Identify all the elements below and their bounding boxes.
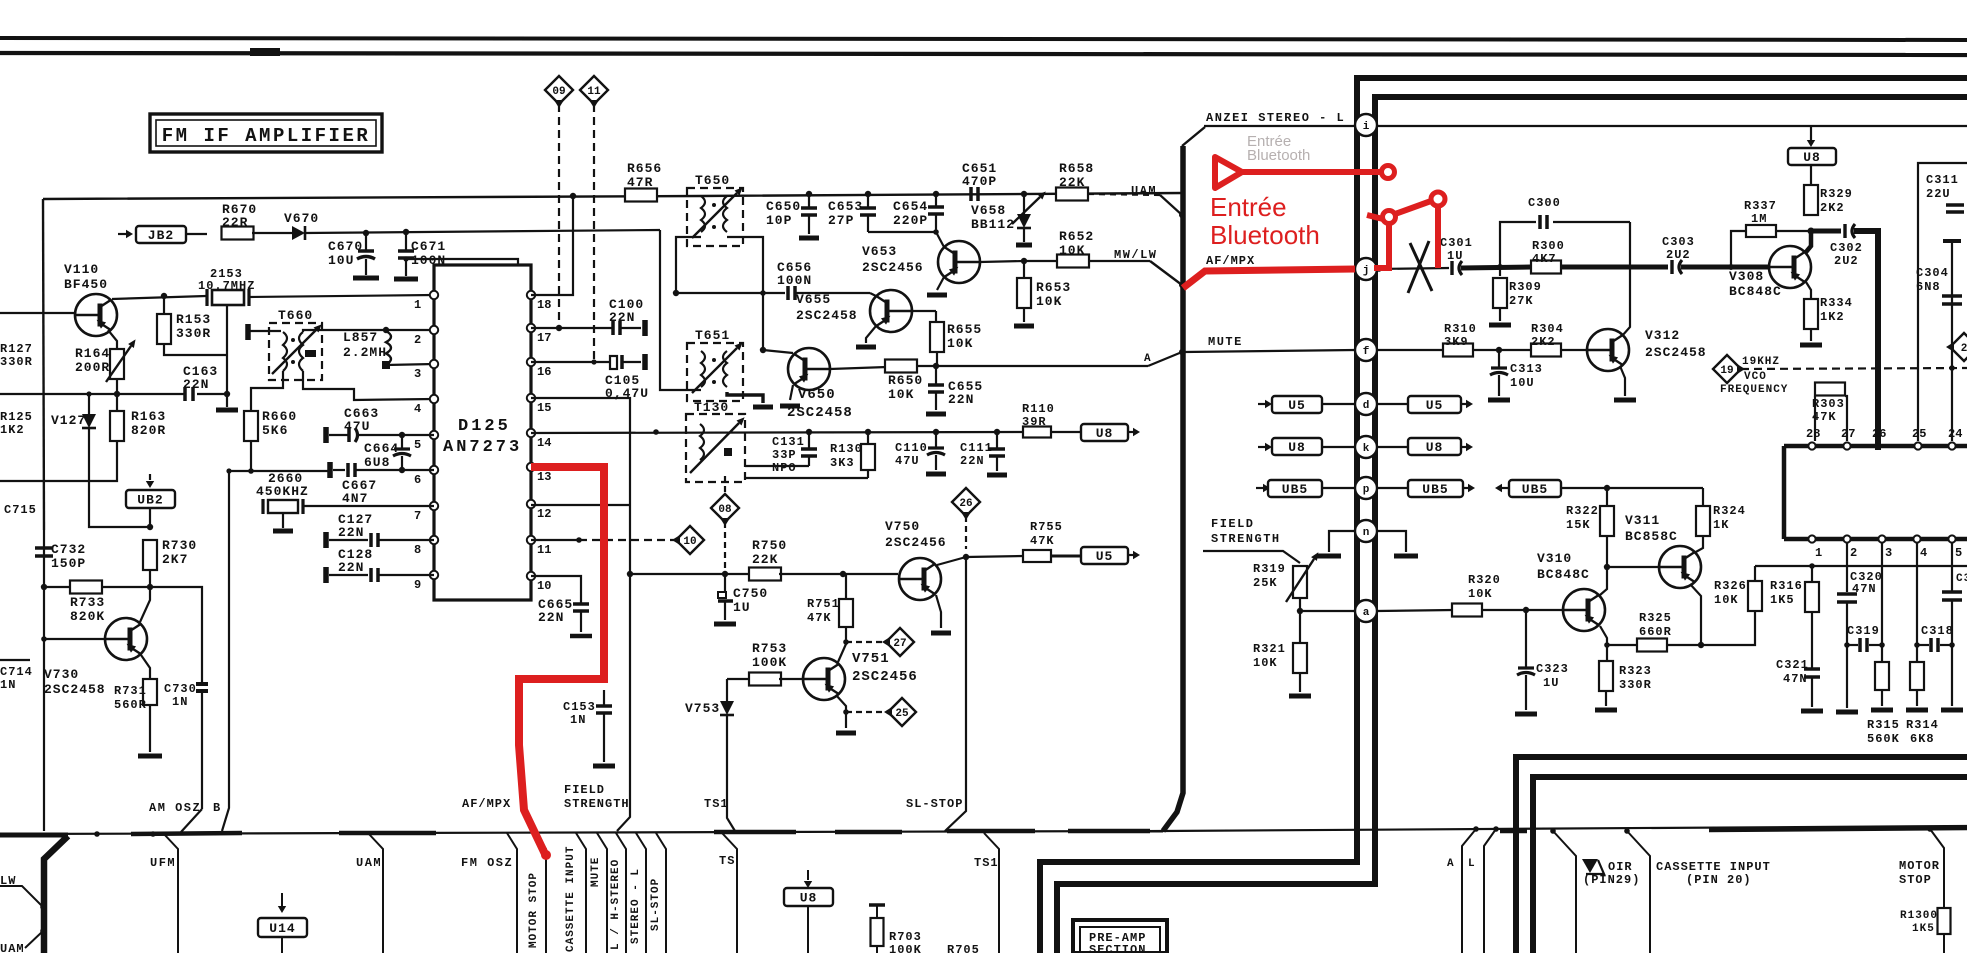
svg-text:T130: T130 bbox=[694, 400, 729, 415]
capacitor C127 22N (pin8) bbox=[323, 532, 329, 548]
svg-text:SL-STOP: SL-STOP bbox=[906, 797, 963, 811]
net diamond 19 bbox=[1713, 355, 1741, 383]
capacitor C670 10U bbox=[365, 233, 367, 251]
svg-text:10K: 10K bbox=[1714, 593, 1739, 607]
svg-text:R130: R130 bbox=[830, 442, 863, 456]
wire boundary heavy overlay right bbox=[1709, 828, 1967, 830]
wire V655 base to R655 top bbox=[912, 310, 936, 312]
capacitor C671 100N bbox=[405, 232, 407, 250]
capacitor C667 4N7 (pin6) bbox=[327, 462, 333, 478]
wire V751 emitter ground bbox=[845, 712, 847, 728]
wire SL-STOP riser down bbox=[945, 557, 966, 831]
wire crystal to IC pin 1 bbox=[249, 295, 434, 297]
svg-text:BB112: BB112 bbox=[971, 217, 1015, 232]
capacitor C110 47U bbox=[935, 432, 937, 447]
wire FM IF block left border bbox=[43, 199, 44, 530]
wire UFM drop line bbox=[163, 833, 178, 953]
svg-text:47U: 47U bbox=[344, 419, 370, 434]
svg-text:1: 1 bbox=[414, 298, 421, 312]
svg-text:NPO: NPO bbox=[772, 461, 797, 475]
svg-text:R652: R652 bbox=[1059, 229, 1094, 244]
wire V653 collector from C653/C654 junction bbox=[936, 232, 944, 247]
svg-text:k: k bbox=[1363, 443, 1370, 455]
wire pin25 riser to C311 rail bbox=[1918, 163, 1967, 441]
svg-text:13: 13 bbox=[537, 470, 551, 484]
wire T651 left top stub bbox=[676, 350, 701, 352]
capacitor C111 22N bbox=[996, 432, 998, 448]
svg-text:820K: 820K bbox=[70, 609, 105, 624]
wire V312 emitter ground bbox=[1620, 366, 1625, 396]
node junction SL-STOP bbox=[963, 554, 969, 560]
svg-text:L / H-STEREO: L / H-STEREO bbox=[610, 859, 622, 950]
node junction R733 left bbox=[41, 584, 47, 590]
svg-text:R303: R303 bbox=[1812, 397, 1845, 411]
annotation red switch upper ring bbox=[1431, 192, 1445, 206]
cut mark X bbox=[1410, 243, 1432, 291]
svg-text:2K2: 2K2 bbox=[1531, 335, 1556, 349]
svg-text:V730: V730 bbox=[44, 667, 79, 682]
svg-text:R733: R733 bbox=[70, 595, 105, 610]
transistor V751 2SC2456 bbox=[803, 658, 845, 700]
wire A drop line bbox=[1462, 829, 1476, 953]
svg-text:C304: C304 bbox=[1916, 266, 1949, 280]
svg-text:R127: R127 bbox=[0, 342, 33, 356]
svg-text:V110: V110 bbox=[64, 262, 99, 277]
svg-text:22K: 22K bbox=[752, 552, 778, 567]
svg-text:U8: U8 bbox=[800, 891, 818, 906]
node junction C670 bbox=[363, 230, 369, 236]
svg-text:UAM: UAM bbox=[0, 942, 25, 953]
svg-text:10K: 10K bbox=[1059, 243, 1085, 258]
svg-text:2U2: 2U2 bbox=[1834, 254, 1859, 268]
svg-text:R316: R316 bbox=[1770, 579, 1803, 593]
diode V127 bbox=[88, 394, 90, 414]
connector circle n bbox=[1355, 520, 1377, 542]
svg-text:47N: 47N bbox=[1852, 582, 1877, 596]
wire UB2 to R730 bbox=[149, 508, 151, 527]
IC D125 pin 6 bbox=[430, 466, 438, 474]
T650 adjust arrow bbox=[692, 193, 737, 238]
transformer T130 (dashed can) bbox=[686, 414, 745, 482]
IC pin 25 (top) bbox=[1914, 442, 1921, 449]
capacitor C750 1U bbox=[724, 574, 726, 592]
net diamond 25 bbox=[888, 698, 916, 726]
wire V655 collector to C656 line bbox=[870, 293, 876, 296]
svg-text:22N: 22N bbox=[960, 454, 985, 468]
wire FM OSZ drop line bbox=[507, 833, 517, 953]
svg-text:27: 27 bbox=[1841, 427, 1855, 441]
capacitor C730 1N bbox=[196, 682, 208, 686]
svg-text:V312: V312 bbox=[1645, 328, 1680, 343]
svg-text:U5: U5 bbox=[1288, 398, 1306, 413]
svg-text:STRENGTH: STRENGTH bbox=[1211, 532, 1281, 546]
svg-text:19: 19 bbox=[1720, 365, 1733, 377]
IC D125 pin 7 bbox=[430, 502, 438, 510]
svg-text:3K3: 3K3 bbox=[830, 456, 855, 470]
svg-text:22N: 22N bbox=[948, 392, 974, 407]
svg-text:Bluetooth: Bluetooth bbox=[1210, 220, 1320, 250]
capacitor C653 27P bbox=[867, 194, 869, 207]
svg-text:UB5: UB5 bbox=[1522, 482, 1548, 497]
node junction C319 left bbox=[1844, 642, 1850, 648]
svg-text:1K2: 1K2 bbox=[1820, 310, 1845, 324]
wire JB2 to R670 bbox=[186, 233, 207, 235]
wire V308 collector node to C302 (heavy) bbox=[1811, 229, 1841, 234]
resistor R755 47K bbox=[1023, 550, 1051, 562]
connector circle a bbox=[1355, 600, 1377, 622]
T650 right winding bbox=[723, 196, 727, 232]
T130 adjust arrow bbox=[690, 423, 739, 473]
svg-text:12: 12 bbox=[537, 507, 551, 521]
crystal 2153 10.7MHZ bbox=[212, 290, 244, 305]
wire C303 to V308 base (heavy) bbox=[1681, 265, 1769, 270]
IC pin 24 (top) bbox=[1948, 442, 1955, 449]
wire C656 line bbox=[676, 292, 785, 294]
resistor R163 820R bbox=[116, 394, 118, 411]
wire dashed 19KHZ line bbox=[1741, 368, 1967, 369]
resistor R731 560R bbox=[143, 679, 157, 705]
inductor L857 2.2MH bbox=[386, 331, 391, 365]
wire R324 to V311 emitter bbox=[1694, 536, 1703, 553]
svg-text:2SC2456: 2SC2456 bbox=[852, 669, 918, 685]
svg-text:22R: 22R bbox=[222, 215, 248, 230]
svg-text:TS1: TS1 bbox=[704, 797, 729, 811]
wire dashed from diamond 09 to pin 17 wire bbox=[558, 104, 560, 328]
svg-text:5: 5 bbox=[414, 438, 421, 452]
svg-text:2SC2456: 2SC2456 bbox=[862, 260, 924, 275]
svg-text:10K: 10K bbox=[888, 387, 914, 402]
net diamond 26 bbox=[952, 488, 980, 516]
terminal box U5 right (row d) bbox=[1377, 403, 1408, 405]
resistor R334 1K2 bbox=[1804, 299, 1818, 329]
wire heavy frame inner (bottom right) bbox=[1533, 777, 1967, 953]
IC D125 pin 11 bbox=[527, 536, 535, 544]
wire connector a to R320 bbox=[1377, 610, 1453, 611]
terminal box UB2 bbox=[146, 481, 154, 488]
svg-text:BF450: BF450 bbox=[64, 277, 108, 292]
wire dashed diamond 08 to R750 wire bbox=[724, 522, 726, 574]
wire R670 to V670 bbox=[252, 232, 292, 234]
svg-text:10K: 10K bbox=[1468, 587, 1493, 601]
svg-text:AM OSZ: AM OSZ bbox=[149, 801, 201, 815]
capacitor stub above R703 bbox=[869, 903, 885, 907]
svg-text:R320: R320 bbox=[1468, 573, 1501, 587]
wire R320 to V310 base bbox=[1482, 609, 1563, 611]
node junction OIR terminal bbox=[1550, 828, 1556, 834]
svg-text:D125: D125 bbox=[458, 417, 511, 436]
resistor R316 1K5 bbox=[1805, 582, 1819, 612]
capacitor C313 10U bbox=[1498, 350, 1500, 367]
capacitor C302 2U2 bbox=[1843, 224, 1846, 238]
svg-text:100K: 100K bbox=[889, 943, 922, 953]
svg-text:1N: 1N bbox=[172, 695, 188, 709]
svg-text:MOTOR STOP: MOTOR STOP bbox=[528, 872, 540, 948]
node junction pin11 bbox=[576, 537, 582, 543]
svg-text:AN7273: AN7273 bbox=[443, 438, 522, 457]
transistor V312 2SC2458 bbox=[1587, 329, 1629, 371]
svg-text:R329: R329 bbox=[1820, 187, 1853, 201]
terminal box JB2 bbox=[126, 230, 133, 238]
svg-text:R326: R326 bbox=[1714, 579, 1747, 593]
wire R329 top to U8 box bbox=[1810, 165, 1812, 185]
svg-text:47K: 47K bbox=[1030, 534, 1055, 548]
wire heavy left corner at boundary bbox=[0, 833, 68, 838]
capacitor C654 220P bbox=[935, 194, 937, 206]
svg-text:MOTOR: MOTOR bbox=[1899, 859, 1940, 873]
wire V127 riser to R730 top bbox=[89, 428, 150, 527]
wire R733 to R730 junction bbox=[102, 586, 150, 588]
wire pin5 riser with cap bbox=[1951, 543, 1953, 591]
T651 right winding bbox=[723, 351, 727, 387]
wire heavy bus line 4 with left corner down (connector bus right rail) bbox=[1057, 97, 1967, 953]
potentiometer R319 25K bbox=[1293, 566, 1307, 598]
wire TS1 drop line bbox=[984, 833, 999, 953]
svg-text:1U: 1U bbox=[733, 600, 751, 615]
svg-text:C319: C319 bbox=[1847, 624, 1880, 638]
svg-text:V308: V308 bbox=[1729, 269, 1764, 284]
svg-text:10K: 10K bbox=[1036, 294, 1062, 309]
svg-text:MW/LW: MW/LW bbox=[1114, 248, 1158, 262]
wire top bus line 1 bbox=[0, 38, 1967, 40]
wire V311 collector down to R325 wire bbox=[1690, 584, 1701, 645]
wire motor stop drop with R1300 bbox=[1930, 829, 1944, 909]
svg-text:2.2MH: 2.2MH bbox=[343, 345, 387, 360]
node junction C319 right bbox=[1879, 642, 1885, 648]
resistor R670 22R bbox=[222, 227, 254, 240]
svg-text:L: L bbox=[1468, 858, 1476, 870]
transistor V310 BC848C bbox=[1563, 589, 1605, 631]
svg-text:R337: R337 bbox=[1744, 199, 1777, 213]
resistor R324 1K bbox=[1702, 488, 1704, 505]
wire R300 to C303 (heavy) bbox=[1561, 265, 1668, 270]
terminal box U8 (supply V308) bbox=[1788, 148, 1836, 165]
resistor R652 10K bbox=[1024, 260, 1059, 262]
svg-text:10.7MHZ: 10.7MHZ bbox=[198, 279, 255, 293]
svg-text:R163: R163 bbox=[131, 409, 166, 424]
svg-text:3: 3 bbox=[1885, 546, 1892, 560]
svg-text:MUTE: MUTE bbox=[590, 857, 602, 887]
wire left rail y=394 with C163 bbox=[0, 393, 184, 395]
svg-text:(PIN 20): (PIN 20) bbox=[1686, 873, 1752, 887]
wire R750 to V750 base bbox=[779, 573, 898, 575]
svg-text:10K: 10K bbox=[947, 336, 973, 351]
wire T660 primary bottom to R660 bbox=[251, 371, 283, 411]
resistor R153 330R bbox=[163, 296, 165, 314]
T650 core dots bbox=[712, 203, 716, 207]
capacitor C663 47U (pin5) bbox=[323, 427, 329, 443]
svg-text:U8: U8 bbox=[1096, 426, 1114, 441]
wire V730 emitter to R731 bbox=[141, 655, 150, 679]
node junction V127 wire at R730 top bbox=[147, 524, 153, 530]
svg-text:2SC2458: 2SC2458 bbox=[796, 308, 858, 323]
svg-text:25: 25 bbox=[895, 708, 909, 720]
svg-text:V653: V653 bbox=[862, 244, 897, 259]
svg-text:A: A bbox=[1447, 858, 1455, 870]
svg-text:R755: R755 bbox=[1030, 520, 1063, 534]
svg-text:19KHZ: 19KHZ bbox=[1742, 356, 1780, 368]
svg-text:C671: C671 bbox=[411, 239, 446, 254]
node junction dots on boundary bbox=[94, 831, 100, 837]
wire R660 bottom to AM OSZ rail bbox=[250, 441, 252, 471]
svg-text:C111: C111 bbox=[960, 441, 993, 455]
svg-text:C110: C110 bbox=[895, 441, 928, 455]
ground of resonator bbox=[282, 514, 284, 528]
capacitor C163 22N bbox=[183, 387, 187, 401]
svg-text:BC848C: BC848C bbox=[1729, 284, 1782, 299]
svg-text:47R: 47R bbox=[627, 175, 653, 190]
svg-text:AF/MPX: AF/MPX bbox=[462, 797, 511, 811]
svg-text:SL-STOP: SL-STOP bbox=[650, 878, 662, 931]
resistor R753 100K bbox=[727, 678, 751, 680]
capacitor C320 47N bbox=[1837, 592, 1857, 596]
svg-text:R314: R314 bbox=[1906, 718, 1939, 732]
T130 winding bbox=[700, 424, 704, 460]
IC D125 pin 4 bbox=[430, 395, 438, 403]
wire R730 junction to V730 collector bbox=[140, 587, 150, 622]
svg-text:47K: 47K bbox=[807, 611, 832, 625]
resistor R656 47R (on border rail) bbox=[625, 189, 657, 202]
terminal box U8 (pin14 net) bbox=[1081, 424, 1128, 441]
svg-text:R703: R703 bbox=[889, 930, 922, 944]
wire boundary heavy segment 5 bbox=[947, 829, 1035, 834]
svg-text:330R: 330R bbox=[0, 355, 33, 369]
svg-text:JB2: JB2 bbox=[148, 228, 174, 243]
svg-text:FREQUENCY: FREQUENCY bbox=[1720, 384, 1788, 396]
net diamond 27 bbox=[886, 628, 914, 656]
node junction R153 top bbox=[161, 293, 167, 299]
IC D125 pin 12 bbox=[527, 500, 535, 508]
wire pin11 stub bbox=[531, 539, 579, 541]
resistor R314 6K8 bbox=[1916, 645, 1918, 662]
svg-text:470P: 470P bbox=[962, 174, 997, 189]
capacitor C128 22N (pin9) bbox=[323, 567, 329, 583]
IC D125 pin 16 bbox=[527, 358, 535, 366]
svg-text:T650: T650 bbox=[695, 173, 730, 188]
wire heavy bus line 3 with left corner down (connector bus left rail) bbox=[1040, 78, 1967, 953]
capacitor C321 47N bbox=[1811, 612, 1813, 668]
T660 adjust arrow bbox=[272, 330, 316, 374]
capacitor C153 1N bbox=[603, 690, 605, 705]
annotation red AF/MPX wire bbox=[1183, 269, 1355, 288]
IC D125 pin 15 bbox=[527, 394, 535, 402]
net diamond 11 bbox=[580, 76, 608, 104]
wire V650 emitter ground bbox=[790, 385, 793, 400]
wire pin4 riser bbox=[1916, 543, 1918, 645]
wire R319 to connector a bbox=[1299, 598, 1301, 611]
capacitor C100 22N bbox=[611, 321, 615, 335]
svg-text:22N: 22N bbox=[538, 610, 564, 625]
svg-text:R164: R164 bbox=[75, 346, 110, 361]
IC D125 pin 10 bbox=[527, 572, 535, 580]
svg-text:BC858C: BC858C bbox=[1625, 529, 1678, 544]
svg-text:V127: V127 bbox=[51, 413, 86, 428]
resistor R733 820K bbox=[44, 586, 72, 588]
svg-text:T651: T651 bbox=[695, 328, 730, 343]
IC pin 5 (bottom) bbox=[1948, 535, 1955, 542]
svg-text:R315: R315 bbox=[1867, 718, 1900, 732]
IC stereo decoder bottom edge with pins 1..5 bbox=[1784, 537, 1967, 542]
resistor R309 27K bbox=[1499, 267, 1501, 276]
capacitor C300 bbox=[1538, 215, 1542, 229]
capacitor C105 0.47U bbox=[610, 356, 617, 369]
svg-text:22N: 22N bbox=[338, 525, 364, 540]
terminal box U5 left (row d) bbox=[1265, 400, 1272, 408]
resistor R110 39R bbox=[1023, 427, 1051, 438]
svg-text:FM OSZ: FM OSZ bbox=[461, 856, 513, 870]
svg-text:a: a bbox=[1363, 607, 1370, 619]
svg-text:R656: R656 bbox=[627, 161, 662, 176]
svg-text:220P: 220P bbox=[893, 213, 928, 228]
svg-text:17: 17 bbox=[537, 331, 551, 345]
capacitor C651 470P (on rail) bbox=[969, 187, 973, 201]
svg-text:C300: C300 bbox=[1528, 196, 1561, 210]
capacitor C323 1U bbox=[1525, 610, 1527, 667]
wire R755 to U5 box bbox=[1051, 555, 1081, 558]
transistor V655 2SC2458 (mirrored) bbox=[870, 290, 912, 332]
symbol OIR triangle bbox=[1582, 859, 1598, 873]
svg-text:V670: V670 bbox=[284, 211, 319, 226]
svg-text:U8: U8 bbox=[1803, 150, 1821, 165]
wire FM IF block right border (heavy vertical x=1183) bbox=[1163, 146, 1183, 831]
svg-text:22U: 22U bbox=[1926, 187, 1951, 201]
svg-text:UAM: UAM bbox=[356, 856, 382, 870]
svg-text:UAM: UAM bbox=[1131, 184, 1157, 198]
wire V751 collector bbox=[836, 642, 846, 663]
IC D125 pin 2 bbox=[430, 326, 438, 334]
T660 core slug bbox=[305, 350, 316, 357]
wire drop line after H-STEREO bbox=[616, 833, 626, 953]
wire C302 to pin26 riser (heavy) bbox=[1854, 231, 1878, 450]
terminal box U8 right (row k) bbox=[1377, 446, 1408, 448]
annotation red wire ring to AF line bbox=[1435, 207, 1441, 268]
title box FM IF AMPLIFIER bbox=[150, 114, 382, 152]
svg-text:UB5: UB5 bbox=[1282, 482, 1308, 497]
svg-text:26: 26 bbox=[1872, 427, 1886, 441]
svg-text:1U: 1U bbox=[1447, 249, 1463, 263]
svg-text:V658: V658 bbox=[971, 203, 1006, 218]
svg-text:UB5: UB5 bbox=[1422, 482, 1448, 497]
wire C300 feedback loop bbox=[1500, 222, 1536, 267]
svg-text:V650: V650 bbox=[798, 387, 836, 403]
wire R153 bottom to crystal ground stem bbox=[164, 344, 227, 355]
node junction C671 bbox=[403, 229, 409, 235]
node junction L857 top on pin2 wire bbox=[383, 327, 389, 333]
wire R304 to V312 base bbox=[1561, 349, 1587, 351]
svg-text:VCO: VCO bbox=[1744, 371, 1767, 383]
wire AM OSZ rail bbox=[227, 470, 330, 472]
svg-text:C670: C670 bbox=[328, 239, 363, 254]
svg-text:10: 10 bbox=[537, 579, 551, 593]
wire A line to border bbox=[917, 365, 936, 367]
svg-text:2SC2458: 2SC2458 bbox=[1645, 345, 1707, 360]
transistor V730 2SC2458 bbox=[105, 618, 147, 660]
IC D125 pin 3 bbox=[430, 360, 438, 368]
wire C653 bottom to V653 base stem bbox=[868, 231, 936, 233]
annotation red switch lever bbox=[1395, 201, 1431, 214]
wire crystal bottom stem bbox=[226, 305, 228, 394]
svg-text:OIR: OIR bbox=[1608, 860, 1633, 874]
wire R652 to MW/LW diagonal bbox=[1089, 260, 1150, 262]
svg-text:100K: 100K bbox=[752, 655, 787, 670]
svg-text:47U: 47U bbox=[895, 454, 920, 468]
svg-text:R650: R650 bbox=[888, 373, 923, 388]
wire R303 to pin 27 bbox=[1845, 396, 1847, 441]
transistor V650 2SC2458 (mirrored) bbox=[788, 348, 830, 390]
resistor R321 10K bbox=[1299, 611, 1301, 643]
capacitor C301 1U bbox=[1450, 261, 1453, 275]
svg-text:R110: R110 bbox=[1022, 402, 1055, 416]
svg-text:1M: 1M bbox=[1751, 212, 1767, 226]
